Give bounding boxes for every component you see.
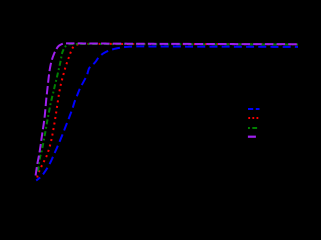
- legend sample green: [248, 127, 257, 129]
- legend sample purple: [248, 136, 256, 138]
- curve green dash-dot: [38, 44, 298, 172]
- curve red dotted: [37, 44, 298, 178]
- curve blue dashed: [36, 46, 298, 180]
- curve purple long-dashed: [36, 43, 298, 175]
- legend sample blue: [248, 108, 260, 110]
- legend sample red: [248, 117, 258, 119]
